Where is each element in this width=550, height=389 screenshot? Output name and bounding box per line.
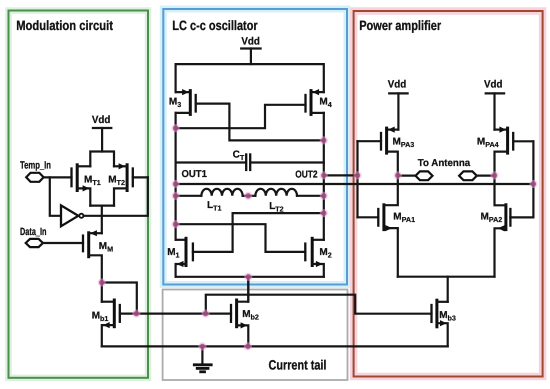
node inductor right junction	[320, 192, 328, 200]
Vdd bar (oscillator)	[241, 47, 260, 49]
wire PA left gates vertical	[356, 141, 358, 217]
node ground junction	[198, 342, 206, 350]
wire current mirror gate line Mb1 to Mb2	[120, 313, 231, 315]
node M1 drain / M2 gate	[172, 220, 180, 228]
svg-text:Vdd: Vdd	[388, 79, 407, 91]
pad antenna hexagon left	[416, 171, 433, 180]
wire inverter output to MT2 gate	[84, 177, 148, 215]
wire OUT line (OUT1 to PA right gates)	[176, 183, 534, 185]
pad Data_In hexagon	[26, 239, 43, 247]
svg-text:Current tail: Current tail	[269, 357, 327, 372]
wire antenna line left	[398, 175, 416, 177]
inductor LT1	[176, 189, 256, 196]
pad Temp_In hexagon	[26, 173, 43, 182]
node inductor left junction	[172, 192, 180, 200]
modulation circuit box	[9, 11, 149, 378]
node M4 drain / M3 gate	[320, 136, 328, 144]
node M2 drain / M1 gate	[320, 209, 328, 217]
wire oscillator left rail	[175, 113, 177, 240]
wire ground rail	[102, 345, 448, 347]
Vdd bar (PA right)	[486, 92, 504, 94]
capacitor CT	[176, 153, 324, 171]
node mirror gate junction	[202, 310, 210, 318]
svg-text:Power amplifier: Power amplifier	[359, 18, 442, 33]
node M3 drain / M4 gate	[172, 124, 180, 132]
transistor MM	[83, 230, 102, 282]
svg-text:Vdd: Vdd	[241, 36, 260, 48]
transistor MPA2	[495, 175, 534, 277]
transistor MT2	[114, 163, 148, 205]
wire M4 gate to M3 drain	[176, 105, 306, 128]
transistor M3	[176, 89, 196, 114]
transistor Mb2	[231, 277, 248, 347]
node PA left gates junction	[353, 171, 361, 179]
Vdd bar (modulation)	[93, 127, 111, 129]
inductor LT2	[255, 189, 323, 196]
svg-text:Data_In: Data_In	[20, 226, 47, 238]
svg-text:Modulation circuit: Modulation circuit	[16, 18, 113, 33]
wire Data_In to MM gate	[43, 242, 83, 244]
LC oscillator box	[163, 9, 347, 285]
node Mb2 source junction	[244, 342, 252, 350]
svg-text:LC c-c oscillator: LC c-c oscillator	[172, 18, 258, 33]
wire mirror jog to Mb3 gate	[206, 295, 432, 314]
wire oscillator tail rail	[176, 276, 324, 278]
wire OUT2 tap to PA left gates	[324, 174, 358, 176]
wire Mb1 drain from node	[101, 283, 103, 302]
node oscillator tail junction	[244, 273, 252, 281]
node PA right gates junction	[529, 180, 537, 188]
wire MT pair bottom bar	[90, 205, 114, 207]
transistor MPA4	[495, 127, 534, 176]
Vdd bar (PA left)	[389, 92, 407, 94]
wire MT pair top bar	[90, 152, 114, 167]
wire Mb1 diode connection	[102, 283, 137, 314]
wire Vdd stem to MPA4	[493, 93, 495, 129]
inverter U1	[61, 205, 84, 226]
svg-text:To Antenna: To Antenna	[418, 158, 471, 169]
transistor MPA1	[358, 175, 398, 277]
transistor Mb1	[102, 300, 120, 346]
wire antenna line right	[477, 175, 495, 177]
node OUT2 tap junction	[320, 171, 328, 179]
transistor M4	[306, 89, 324, 114]
node Mb1 diode junction	[132, 310, 140, 318]
power amplifier box	[354, 11, 543, 377]
node MPA4/MPA2 drain junction	[490, 171, 498, 179]
svg-text:OUT1: OUT1	[182, 169, 208, 180]
wire PA right gates vertical	[532, 141, 534, 217]
current tail box	[163, 290, 348, 381]
wire Vdd stem	[250, 49, 252, 65]
transistor M2	[305, 238, 324, 276]
wire Vdd stem to MT pair	[101, 128, 103, 152]
wire PA tail down to Mb3	[447, 277, 449, 302]
svg-text:Vdd: Vdd	[484, 79, 503, 91]
ground	[193, 346, 213, 371]
wire oscillator top rail	[176, 64, 324, 92]
node MM source / Mb1 drain	[98, 278, 106, 286]
wire inverter input	[50, 177, 61, 215]
wire M2 gate to M1 drain	[176, 224, 306, 252]
wire tail down to Mb2 drain	[247, 277, 249, 302]
wire Vdd stem to MPA3	[397, 93, 399, 129]
svg-text:OUT2: OUT2	[295, 169, 318, 180]
wire M3 gate to M4 drain	[196, 104, 324, 141]
svg-text:Temp_In: Temp_In	[20, 159, 51, 171]
wire M1 gate to M2 drain	[193, 213, 324, 252]
node OUT1 junction	[172, 180, 180, 188]
wire PA source rail	[398, 276, 495, 278]
transistor MPA3	[358, 127, 399, 176]
wire MT pair center tap down to MM drain	[101, 206, 103, 234]
wire oscillator right rail	[323, 113, 325, 240]
transistor Mb3	[432, 300, 448, 346]
svg-text:Vdd: Vdd	[92, 114, 111, 126]
transistor MT1	[44, 165, 91, 206]
transistor M1	[176, 238, 193, 276]
node inductor center tap	[244, 192, 252, 200]
pad antenna hexagon right	[459, 171, 477, 180]
node MPA3/MPA1 drain junction	[394, 171, 402, 179]
